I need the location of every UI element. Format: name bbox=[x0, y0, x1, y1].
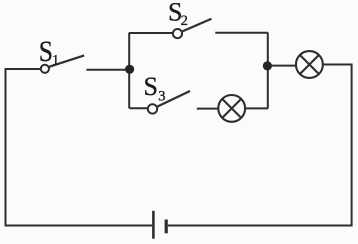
svg-text:2: 2 bbox=[181, 13, 188, 29]
svg-text:S: S bbox=[144, 72, 158, 101]
svg-text:3: 3 bbox=[158, 89, 165, 105]
svg-text:1: 1 bbox=[52, 52, 59, 68]
svg-text:S: S bbox=[39, 35, 53, 68]
